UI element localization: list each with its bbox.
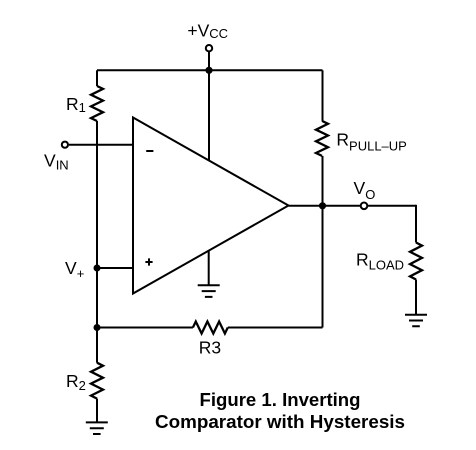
wire RLOAD lower segment to ground	[415, 280, 417, 315]
wire op-amp output to VO terminal	[289, 205, 361, 207]
svg-text:RLOAD: RLOAD	[356, 250, 404, 273]
wire left trunk middle segment (R1 to R3 node, through V+ node)	[96, 121, 98, 363]
wire top rail from R1 top to RPULL-UP top	[97, 69, 323, 71]
wire left trunk upper segment (top rail to R1)	[96, 70, 98, 86]
svg-text:+VCC: +VCC	[187, 20, 228, 41]
resistor RPULL-UP	[316, 121, 328, 156]
+VCC power terminal	[206, 45, 212, 51]
wire op-amp ground pin	[208, 251, 210, 285]
svg-text:VO: VO	[354, 178, 376, 202]
svg-text:RPULL–UP: RPULL–UP	[336, 129, 406, 153]
resistor RLOAD	[410, 243, 422, 280]
node output junction	[319, 202, 326, 209]
ground under op-amp	[198, 285, 220, 297]
wire R3 to V+ trunk	[97, 327, 193, 329]
wire RPULL-UP lower segment to output node	[322, 156, 324, 206]
svg-text:V+: V+	[65, 258, 84, 281]
node V+ junction on left trunk	[94, 265, 101, 272]
node junction of VCC branch and top rail	[205, 67, 212, 74]
wire feedback corner to R3	[228, 327, 323, 329]
wire output node down to feedback corner	[322, 206, 324, 328]
resistor R3	[193, 322, 228, 334]
op-amp non-inverting pin plus sign	[145, 258, 152, 265]
input terminal VIN	[62, 142, 68, 148]
op-amp inverting pin minus sign	[146, 150, 153, 152]
svg-text:R1: R1	[66, 94, 86, 115]
resistor R1	[91, 86, 103, 121]
op-amp U1 comparator triangle	[133, 118, 289, 294]
ground under RLOAD	[405, 315, 427, 327]
svg-text:Comparator with Hysteresis: Comparator with Hysteresis	[155, 411, 405, 432]
wire VCC branch from terminal down to op-amp top edge	[208, 51, 210, 160]
wire RLOAD upper segment	[415, 205, 417, 243]
svg-text:Figure 1. Inverting: Figure 1. Inverting	[200, 389, 361, 410]
node R3 feedback junction on left trunk	[94, 324, 101, 331]
wire R2 lower segment to ground	[96, 399, 98, 423]
wire RPULL-UP upper segment	[322, 70, 324, 121]
output terminal VO	[361, 203, 368, 210]
svg-text:R2: R2	[66, 371, 86, 393]
svg-text:R3: R3	[199, 337, 221, 357]
wire V+ node to non-inverting input	[97, 267, 133, 269]
wire VIN to inverting input	[69, 144, 133, 146]
svg-text:VIN: VIN	[44, 151, 69, 173]
resistor R2	[91, 363, 103, 399]
ground under R2	[86, 422, 108, 434]
wire VO terminal to RLOAD	[367, 205, 416, 207]
